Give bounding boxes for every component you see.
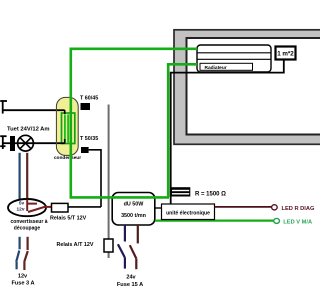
terminal T upper xyxy=(0,100,7,113)
wire fuse to fan xyxy=(15,142,18,144)
svg-text:convertisseur à: convertisseur à xyxy=(11,219,48,225)
wire red converter feed xyxy=(26,153,28,201)
LED D1 R DIAG xyxy=(272,205,315,212)
converter U3 5v/12v xyxy=(8,199,46,216)
wire radiator return xyxy=(171,73,197,204)
svg-text:Fuse 15 A: Fuse 15 A xyxy=(117,282,143,288)
wire stub below relay A/T xyxy=(108,252,110,258)
svg-text:Radiateur: Radiateur xyxy=(205,65,227,71)
switch S4 pump 24v (red) xyxy=(130,225,138,269)
svg-text:Tuet 24V/12 Am: Tuet 24V/12 Am xyxy=(7,126,50,132)
svg-text:T 50/35: T 50/35 xyxy=(80,136,98,142)
relay K2 A/T contact xyxy=(104,239,113,252)
svg-text:Fuse 3 A: Fuse 3 A xyxy=(11,280,34,286)
svg-text:LED R DIAG: LED R DIAG xyxy=(282,206,315,212)
wire lower feed xyxy=(3,142,10,144)
resistor R1 1500 ohm xyxy=(171,187,190,196)
wire T60/45 sense line (gray) xyxy=(108,105,110,240)
LED D2 V M/A xyxy=(274,218,312,225)
switch S1 battery 12v (blue) xyxy=(16,237,19,269)
svg-text:Relais 5/T 12V: Relais 5/T 12V xyxy=(50,215,87,221)
wire blue converter feed xyxy=(19,153,21,200)
wire green LED feed xyxy=(155,220,274,222)
svg-text:T 60/45: T 60/45 xyxy=(80,95,98,101)
pump U2 dU 50W 3500 t/mn xyxy=(112,193,155,226)
svg-text:dU 50W: dU 50W xyxy=(124,201,145,207)
svg-text:découpage: découpage xyxy=(14,225,41,231)
1 m2 box xyxy=(276,47,296,60)
ECU U1 unite electronique xyxy=(162,204,215,220)
fan motor M1 xyxy=(18,135,34,151)
wire red inside converter xyxy=(27,200,51,213)
switch S2 battery 12v (red) xyxy=(24,237,28,270)
relay K1 5/T body xyxy=(52,203,69,212)
wire 1m2 box riser xyxy=(197,60,284,73)
svg-text:unité électronique: unité électronique xyxy=(166,210,210,216)
wire T50/35 to relay junction xyxy=(89,150,101,207)
svg-text:Relais A/T 12V: Relais A/T 12V xyxy=(57,242,94,248)
wire green condenser loop xyxy=(71,49,197,198)
terminal T lower xyxy=(0,136,6,149)
svg-text:3500 t/mn: 3500 t/mn xyxy=(121,213,146,219)
switch S3 pump 24v (blue) xyxy=(118,225,125,269)
svg-text:24v: 24v xyxy=(126,274,136,280)
node T 50/35 probe xyxy=(80,136,98,153)
svg-text:5v: 5v xyxy=(19,201,25,207)
svg-text:R = 1500 Ω: R = 1500 Ω xyxy=(195,191,226,197)
fuse F1 block xyxy=(10,136,15,151)
wire red diag xyxy=(215,206,272,208)
svg-text:condenseur: condenseur xyxy=(54,155,81,161)
condenser pins xyxy=(57,109,65,111)
wire fan to condenser xyxy=(34,142,57,144)
node T 60/45 probe xyxy=(80,95,98,110)
wire relay 5/T output xyxy=(68,206,101,208)
svg-text:12v: 12v xyxy=(16,206,24,212)
svg-text:LED V M/A: LED V M/A xyxy=(283,220,312,226)
wire pump to ECU xyxy=(155,207,162,209)
svg-text:12v: 12v xyxy=(18,273,28,279)
wire green return xyxy=(168,64,197,197)
room enclosure (gray frame) xyxy=(174,30,320,145)
svg-text:1 m*2: 1 m*2 xyxy=(277,51,294,58)
radiator xyxy=(197,45,271,72)
condenser C1 body xyxy=(56,97,78,155)
wire upper feed xyxy=(3,109,60,111)
